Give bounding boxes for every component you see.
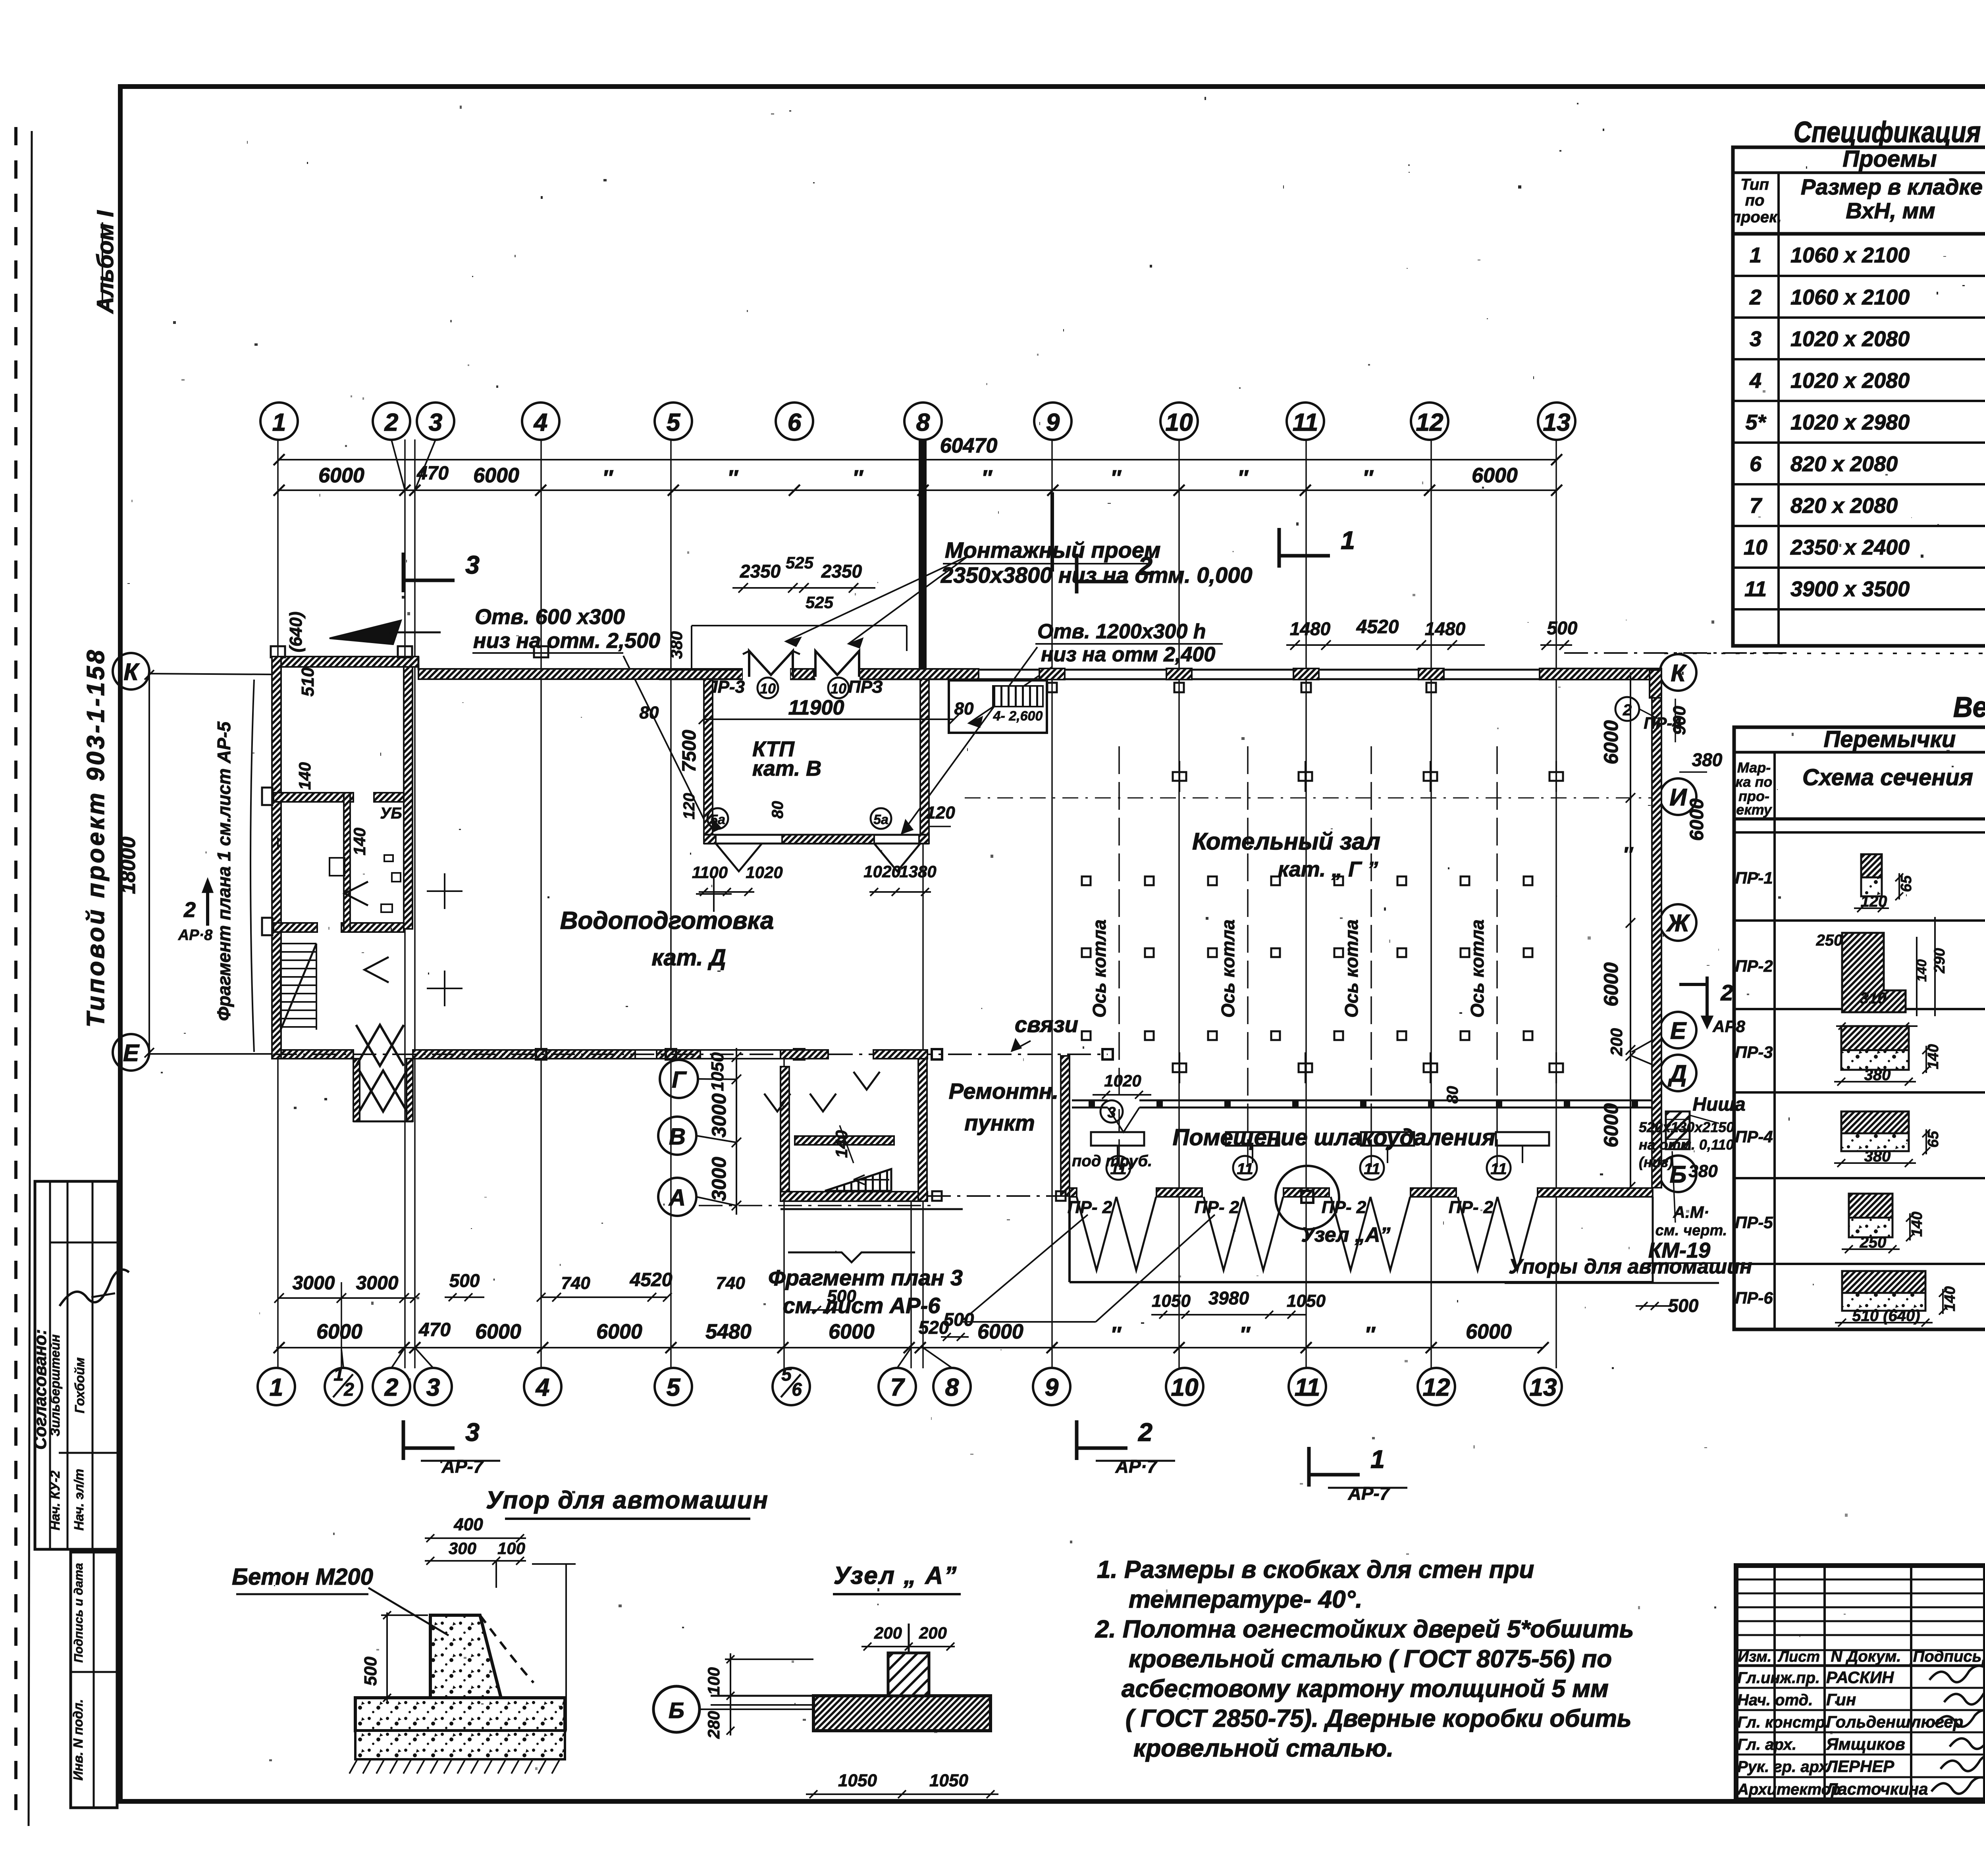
svg-text:ПР-4: ПР-4 [1735,1127,1773,1146]
svg-text:Монтажный проем: Монтажный проем [945,537,1160,562]
svg-text:80: 80 [769,801,786,819]
svg-text:820 х 2080: 820 х 2080 [1790,494,1898,518]
svg-text:″: ″ [1363,466,1374,490]
scan margin thin line [29,131,32,1826]
section diagram PR-3 [1841,1026,1909,1050]
section diagram PR-5 [1849,1194,1892,1218]
svg-text:8: 8 [916,409,930,436]
uzel A callout circle [1276,1166,1339,1229]
svg-text:К: К [1671,660,1687,686]
spec table grid [1733,147,1985,646]
svg-text:Инв. N подл.: Инв. N подл. [71,1699,85,1780]
section flag 3 bottom [402,1420,405,1460]
svg-text:1050: 1050 [1287,1291,1326,1311]
svg-text:11: 11 [1364,1160,1380,1178]
svg-text:140: 140 [1909,1212,1925,1237]
montage opening jog 380 [691,626,692,669]
svg-text:см. лист АР-6: см. лист АР-6 [783,1293,941,1318]
svg-text:Мар-: Мар- [1737,759,1771,776]
svg-text:Б: Б [669,1698,684,1723]
svg-text:″: ″ [602,466,613,490]
svg-text:Ниша: Ниша [1692,1094,1745,1115]
E wall mid segment [413,1050,635,1059]
left block interior vertical wall [404,667,412,929]
svg-text:7500: 7500 [679,730,700,772]
top wall door W symbol 1 [749,651,793,677]
axis circle top 6 [776,403,813,440]
KTP bottom dims [699,891,754,893]
axis circle bottom 4 [524,1368,561,1405]
dim 500 right bottom [1636,1305,1671,1307]
letter circle right Б [1660,1156,1696,1192]
svg-text:Альбом I: Альбом I [93,210,118,314]
top wall band right of doors [790,669,814,679]
machine marks row bottom [1173,1063,1186,1072]
section flag 1 bottom [1307,1447,1311,1487]
axis leader bottom 1/2 [341,1350,343,1368]
svg-text:4- 2,600: 4- 2,600 [993,709,1043,724]
svg-text:8: 8 [945,1374,959,1401]
svg-text:ка по: ка по [1736,774,1773,790]
axis circle top 2 [373,403,410,440]
stamp column table [71,1552,117,1808]
svg-text:″: ″ [1110,466,1122,490]
annex right wall [918,1056,927,1201]
svg-text:Ж: Ж [1666,910,1690,936]
letter circle right Е [1660,1012,1696,1048]
bottom main dim row [276,1347,1543,1348]
left block door chevron 1 [345,882,368,905]
svg-text:А: А [668,1185,686,1211]
svg-text:500: 500 [449,1270,480,1291]
gate leaders [961,1215,1088,1322]
svg-text:Ось котла: Ось котла [1341,919,1362,1017]
svg-text:кат. В: кат. В [752,757,821,780]
svg-text:кровельной сталью ( ГОСТ 80: кровельной сталью ( ГОСТ 8075-56) по [1129,1645,1612,1673]
svg-text:Узел „ А”: Узел „ А” [834,1562,958,1589]
axis circle top 1 [260,403,298,440]
right wall band [1652,680,1661,1188]
ground hatch [349,1759,357,1774]
column squares row 2219 [1082,876,1091,885]
svg-text:120: 120 [1861,893,1887,910]
svg-text:380: 380 [1688,1161,1718,1181]
svg-text:ПР-6: ПР-6 [1735,1289,1773,1307]
svg-text:10: 10 [1166,409,1193,436]
dim line total 60470 [278,459,1557,460]
svg-text:6000: 6000 [596,1320,642,1343]
svg-text:11: 11 [1744,577,1767,601]
left wall piers [262,788,272,805]
axis circle top 12 [1411,403,1448,440]
crease dotted line [1664,653,1985,654]
axis circle bottom 9 [1033,1368,1070,1405]
svg-text:Фрагмент плана 1 см.лист АР-5: Фрагмент плана 1 см.лист АР-5 [214,721,234,1021]
svg-text:″: ″ [1239,1323,1251,1346]
svg-text:1: 1 [272,409,286,436]
svg-text:Е: Е [1670,1017,1687,1044]
svg-text:АР·8: АР·8 [178,927,213,944]
svg-text:5: 5 [781,1364,792,1385]
E wall left segment [281,1050,353,1059]
svg-text:10: 10 [831,680,846,697]
svg-text:ПРЗ: ПРЗ [848,677,883,697]
svg-text:500: 500 [1668,1295,1699,1316]
annex interior wall [795,1136,894,1145]
title block left columns [1773,1566,1776,1800]
svg-text:Ось котла: Ось котла [1467,919,1488,1017]
svg-text:1: 1 [1370,1445,1385,1473]
svg-text:1100: 1100 [692,863,728,882]
svg-text:280: 280 [704,1711,723,1739]
upor right reference line [565,1564,567,1731]
section flag 2 AP-8 left [206,892,209,926]
svg-text:3: 3 [1750,327,1761,351]
svg-text:11: 11 [1293,409,1318,436]
signature 4 [1950,1732,1985,1749]
svg-text:УБ: УБ [380,805,402,822]
svg-text:Рук. гр. арх: Рук. гр. арх [1737,1758,1828,1776]
dims above KTP [732,587,875,589]
svg-text:11: 11 [1295,1374,1320,1401]
remont bottom dashdot [927,1195,1070,1197]
svg-text:( ГОСТ 2850-75). Дверные коро: ( ГОСТ 2850-75). Дверные коробки обить [1125,1705,1632,1732]
svg-text:7: 7 [890,1374,905,1401]
svg-text:6: 6 [788,409,802,436]
svg-text:Помещение шлакоудаления: Помещение шлакоудаления [1173,1125,1495,1150]
concrete stop block [430,1615,501,1698]
svg-text:Гл. арх.: Гл. арх. [1737,1736,1796,1753]
svg-text:13: 13 [1543,409,1571,436]
svg-text:140: 140 [832,1130,851,1158]
svg-text:2: 2 [384,1374,398,1401]
svg-text:КМ-19: КМ-19 [1648,1238,1710,1262]
svg-text:2: 2 [1749,285,1761,309]
svg-text:ПР- 2: ПР- 2 [1068,1198,1112,1217]
axis circle bottom 11 [1289,1368,1326,1405]
machine pads [1091,1132,1144,1146]
svg-text:Ось котла: Ось котла [1218,919,1238,1017]
svg-text:Нач. эл/т: Нач. эл/т [71,1469,86,1531]
svg-text:см. черт.: см. черт. [1655,1222,1727,1239]
svg-text:380: 380 [1692,749,1723,770]
svg-text:″: ″ [1237,466,1249,490]
section diagram PR-4 [1841,1111,1909,1133]
svg-text:Проемы: Проемы [1842,146,1937,172]
svg-text:10: 10 [1171,1374,1199,1401]
svg-text:6000: 6000 [473,464,519,487]
signature 5 [1941,1755,1985,1771]
section flag 1 top [1278,528,1281,568]
svg-text:60470: 60470 [940,434,998,457]
svg-text:ПР- 2: ПР- 2 [1322,1198,1366,1217]
porch walls [353,1059,360,1121]
axis circle bottom 5/6 [773,1368,810,1405]
svg-text:Архитектор: Архитектор [1737,1781,1840,1798]
dim line top spans [278,489,1557,491]
signature 2 [1944,1688,1985,1704]
bottom dim row A left [278,1297,415,1299]
svg-text:1: 1 [333,1364,344,1385]
title block changelog rows [1736,1579,1985,1581]
svg-text:Типовой проект 903-1-158: Типовой проект 903-1-158 [82,648,110,1028]
KTP right wall [920,679,929,844]
uzel A dims 100 280 [730,1653,731,1735]
svg-text:6000: 6000 [1600,1103,1622,1147]
svg-text:1050: 1050 [1152,1291,1191,1311]
boiler axes dashed [1118,746,1120,1175]
uzel A dims 1050 1050 [806,1793,998,1795]
svg-text:5а: 5а [710,812,725,827]
svg-text:525: 525 [806,593,834,612]
dims 1480 4520 1480 500 [1286,644,1485,646]
svg-text:3: 3 [429,409,442,436]
right wall pier K corner [1650,670,1661,698]
letter circle right Д [1660,1055,1696,1091]
svg-text:2: 2 [1623,701,1632,719]
svg-text:ПР- 2: ПР- 2 [1195,1198,1239,1217]
svg-text:асбестовому картону толщиной: асбестовому картону толщиной 5 мм [1122,1675,1609,1703]
svg-text:18000: 18000 [117,837,140,894]
axis circle top 11 [1287,403,1324,440]
svg-text:6000: 6000 [1472,464,1518,487]
svg-text:1020 х 2080: 1020 х 2080 [1790,369,1910,393]
svg-text:520: 520 [919,1317,949,1338]
svg-text:13: 13 [1530,1374,1557,1401]
svg-text:1020: 1020 [863,862,900,881]
svg-text:Подпись: Подпись [1913,1648,1982,1665]
svg-text:3980: 3980 [1208,1288,1249,1308]
svg-text:290: 290 [1931,948,1948,973]
svg-text:Спецификация проемов ворот: Спецификация проемов ворот и дверей [1794,116,1985,148]
axis circle bottom 10 [1166,1368,1203,1405]
upor dim 400 [425,1537,526,1539]
svg-text:екту: екту [1736,801,1772,818]
svg-text:140: 140 [295,762,314,790]
svg-text:кат. „ Г ”: кат. „ Г ” [1278,857,1378,881]
letter circle interior Г [660,1060,698,1098]
svg-text:3900 х 3500: 3900 х 3500 [1790,577,1910,601]
KTP left wall [704,679,713,844]
title block outer [1736,1566,1985,1800]
column squares on E axis [536,1049,546,1059]
dim 18000 [148,672,150,1053]
upor dim 300 100 [425,1560,526,1562]
svg-text:6000: 6000 [1686,798,1707,841]
svg-text:9: 9 [1045,1374,1059,1401]
svg-text:380: 380 [1864,1148,1891,1165]
svg-text:Водоподготовка: Водоподготовка [560,907,774,934]
svg-text:5: 5 [667,409,681,436]
svg-text:380: 380 [667,631,686,659]
E axis dashdot [273,1054,1108,1055]
svg-text:820 х 2080: 820 х 2080 [1790,452,1898,476]
column squares row 2609 [1082,1031,1091,1040]
svg-text:Е: Е [123,1040,140,1066]
svg-text:ПР-5: ПР-5 [1735,1213,1773,1232]
dim 500 annex [941,1336,969,1338]
plus crosses [427,890,463,892]
axis circle top 9 [1034,403,1072,440]
svg-text:Подпись и дата: Подпись и дата [71,1563,85,1662]
annex door zigzags [764,1094,790,1111]
svg-text:АР-7: АР-7 [1348,1483,1391,1504]
svg-text:ПР-4: ПР-4 [1644,714,1682,732]
svg-text:Гольденшлюгер: Гольденшлюгер [1826,1712,1963,1731]
axis circle bottom 8 [933,1368,971,1405]
svg-text:К: К [124,659,140,685]
dashdot line K level right [1564,652,1786,654]
svg-text:300: 300 [449,1539,476,1558]
top wall axis K band [418,669,743,679]
svg-text:ПР-3: ПР-3 [1735,1043,1773,1061]
svg-text:1. Размеры в скобках для: 1. Размеры в скобках для стен при [1097,1556,1534,1583]
letter circle left E [113,1034,149,1071]
axis leader top 2 3 [391,440,405,490]
top-left offset wall band [272,657,418,667]
svg-text:3000: 3000 [708,1093,730,1137]
interior letter leaders [698,1079,736,1079]
svg-text:1: 1 [270,1374,283,1401]
svg-text:Ласточкина: Ласточкина [1825,1780,1928,1798]
svg-text:4520: 4520 [630,1269,673,1290]
letter circle left K [113,653,149,690]
annex left wall [781,1067,789,1201]
svg-text:1: 1 [1750,243,1761,267]
svg-text:1050: 1050 [838,1771,877,1790]
svg-text:3: 3 [465,1418,480,1446]
svg-text:1060 х 2100: 1060 х 2100 [1790,285,1910,309]
axis circle top 5 [655,403,692,440]
svg-text:6000: 6000 [1600,720,1622,764]
left block door chevron 2 [364,957,389,982]
platform edge [1070,1281,1653,1283]
top wall door gap 2 [815,668,860,680]
svg-text:Тип: Тип [1740,176,1769,193]
axis smudge 9 [1050,492,1054,572]
svg-text:Отв. 600 х300: Отв. 600 х300 [475,605,625,629]
left block horizontal wall 1 [274,793,353,802]
left block partition [344,793,350,932]
svg-text:И: И [1669,784,1687,811]
letter leaders E D [1632,1036,1660,1052]
shlak top wall door gap circled 3 [1108,1099,1139,1109]
circled 2 right [1615,697,1639,721]
svg-text:250: 250 [1816,932,1843,949]
axis circle bottom 1 [258,1368,295,1405]
axis circle top 8 [904,403,942,440]
signature 6 [1931,1777,1985,1793]
svg-text:5: 5 [667,1374,681,1401]
svg-text:Перемычки: Перемычки [1824,726,1956,752]
interior dim chain 1050 3000 3000 [736,1048,737,1215]
shlak bottom wall segments [1070,1188,1077,1197]
right dim line vertical [1630,672,1631,1189]
axis circle bottom 1/2 [325,1368,362,1405]
svg-text:2: 2 [183,898,196,922]
left wall band [272,657,281,1059]
svg-text:Гин: Гин [1826,1690,1856,1709]
axis smudge 8 [919,441,927,675]
svg-text:3: 3 [465,551,480,579]
svg-text:250: 250 [1860,1234,1887,1251]
svg-text:ПР-1: ПР-1 [1735,869,1773,887]
svg-text:6000: 6000 [829,1320,875,1343]
svg-text:″: ″ [1364,1323,1376,1346]
svg-text:3: 3 [1107,1104,1116,1121]
approval table [35,1181,118,1549]
svg-text:температуре- 40°.: температуре- 40°. [1129,1586,1363,1613]
svg-text:11: 11 [1110,1160,1127,1178]
A axis line [699,1205,937,1206]
letter circle right И [1660,778,1696,815]
svg-text:Д: Д [1667,1060,1686,1087]
svg-text:низ на отм 2,400: низ на отм 2,400 [1041,643,1215,666]
svg-text:Ось котла: Ось котла [1089,919,1110,1017]
svg-text:1480: 1480 [1425,618,1466,639]
section diagram PR-1 [1861,854,1882,877]
svg-text:Гл.инж.пр.: Гл.инж.пр. [1737,1669,1820,1687]
svg-text:2350: 2350 [821,561,862,582]
svg-text:140: 140 [350,828,369,855]
uzel A dims 200 200 [861,1646,955,1647]
svg-text:200: 200 [1607,1028,1626,1056]
svg-text:140: 140 [1925,1044,1942,1069]
svg-text:140: 140 [1942,1286,1958,1311]
section diagram PR-6 [1842,1271,1925,1293]
svg-text:пункт: пункт [964,1110,1035,1135]
svg-text:1: 1 [1341,526,1355,555]
svg-text:6000: 6000 [977,1320,1023,1343]
svg-text:5а: 5а [873,812,888,827]
axis circle bottom 7 [879,1368,916,1405]
svg-text:2: 2 [1138,1418,1152,1446]
section flag 3 top [402,553,405,592]
svg-text:1060 х 2100: 1060 х 2100 [1790,243,1910,267]
svg-text:11: 11 [1237,1160,1253,1178]
stairs top left [281,943,316,944]
svg-text:АР8: АР8 [1712,1017,1745,1036]
bottom dim row A mid [541,1296,667,1298]
svg-text:11: 11 [1490,1160,1507,1178]
top wall door gap 1 [743,668,790,680]
top wall door W symbol 2 [815,651,859,677]
svg-text:Гл. констр.: Гл. констр. [1737,1714,1829,1731]
svg-text:3000: 3000 [356,1273,399,1294]
svg-text:4520: 4520 [1356,616,1399,638]
svg-text:″: ″ [852,466,863,490]
svg-text:на отм. 0,110: на отм. 0,110 [1639,1136,1734,1153]
top left arrow symbol [330,620,401,644]
shlak room top wall [1072,1100,1652,1102]
svg-text:10: 10 [1744,535,1767,559]
fragment plan 3 labels [788,1252,915,1262]
axis circle bottom 2 [373,1368,410,1405]
svg-text:кровельной сталью.: кровельной сталью. [1133,1735,1393,1762]
svg-text:2: 2 [384,409,398,436]
svg-text:200: 200 [919,1624,947,1642]
svg-text:ПР- 2: ПР- 2 [1449,1198,1494,1217]
remont room right wall [1061,1056,1070,1196]
axis circle top 10 [1160,403,1198,440]
porch door X [359,1071,407,1111]
svg-text:2350х3800 низ на отм. 0,000: 2350х3800 низ на отм. 0,000 [940,562,1253,587]
top wall piers [1039,668,1065,680]
gate leaves zigzag [1077,1197,1116,1270]
svg-text:12: 12 [1416,409,1443,436]
signature 3 [1935,1710,1985,1726]
uzel A circle B [653,1686,700,1732]
